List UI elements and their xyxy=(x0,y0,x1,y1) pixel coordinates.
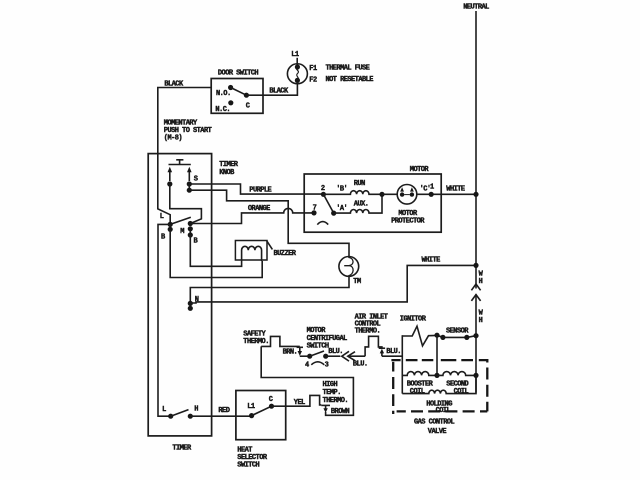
svg-text:BOOSTER: BOOSTER xyxy=(407,380,434,388)
switch centrifugal contacts xyxy=(307,351,328,365)
contact N.O. dot xyxy=(228,85,233,90)
thermostat TM circle xyxy=(339,257,359,277)
svg-text:(M-8): (M-8) xyxy=(164,134,183,142)
svg-text:RED: RED xyxy=(218,407,229,415)
terminal 2 dot xyxy=(321,192,326,197)
svg-text:SECOND: SECOND xyxy=(446,380,468,388)
svg-text:KNOB: KNOB xyxy=(219,169,235,177)
wire BLACK from door switch C to thermal fuse xyxy=(246,83,297,95)
wire ORANGE from M to motor 7 with hop xyxy=(190,208,314,223)
thermostat air inlet control bump xyxy=(365,336,382,356)
svg-text:C: C xyxy=(269,396,273,404)
contact L dot xyxy=(168,222,173,227)
svg-text:AUX.: AUX. xyxy=(354,200,369,208)
junction dot booster-second xyxy=(434,373,439,378)
thermostat safety thermo bump xyxy=(261,336,300,346)
wire L1 stub xyxy=(296,58,298,65)
wire sensor junction to coils xyxy=(436,335,438,375)
switch blade heat selector xyxy=(252,406,272,415)
junction dot second-neutral xyxy=(473,373,478,378)
svg-text:IGNITOR: IGNITOR xyxy=(400,316,427,324)
contact S lower dot xyxy=(187,184,192,193)
buzzer flag xyxy=(267,241,273,250)
svg-text:TIMER: TIMER xyxy=(219,161,239,169)
switch heat selector box xyxy=(236,391,286,440)
protector left contact xyxy=(400,187,404,197)
wire RED to heat selector xyxy=(190,415,251,417)
svg-text:BLU.: BLU. xyxy=(353,360,368,368)
label BOOSTER COIL xyxy=(407,380,434,396)
label MOTOR PROTECTOR xyxy=(391,210,425,226)
buzzer wire from B pair xyxy=(190,235,241,266)
wire S lower to TM xyxy=(189,190,349,256)
contact N.C. dot xyxy=(228,100,233,105)
coil AUX winding xyxy=(334,194,382,213)
svg-text:YEL: YEL xyxy=(294,399,305,407)
fuse element squiggle xyxy=(296,67,298,81)
junction dot motor white neutral xyxy=(473,192,478,197)
wire N to WHITE to neutral xyxy=(190,265,473,303)
svg-text:THERMO.: THERMO. xyxy=(355,328,381,336)
contact push-start left dot xyxy=(167,181,172,186)
svg-text:7: 7 xyxy=(313,204,317,212)
svg-text:COIL: COIL xyxy=(410,388,425,396)
svg-text:HIGH: HIGH xyxy=(323,381,338,389)
contact M dot xyxy=(188,221,193,226)
label SECOND COIL xyxy=(446,380,468,396)
label AIR INLET CONTROL THERMO. xyxy=(355,314,388,336)
svg-text:TM: TM xyxy=(353,278,361,286)
arc motor switch wipe xyxy=(317,222,328,225)
contact B pair below M xyxy=(188,226,193,237)
buzzer coil xyxy=(242,246,262,261)
svg-text:NOT RESETABLE: NOT RESETABLE xyxy=(326,76,374,84)
svg-text:PURPLE: PURPLE xyxy=(249,187,271,195)
contact C heat dot xyxy=(269,404,274,409)
svg-text:GAS CONTROL: GAS CONTROL xyxy=(414,418,455,426)
switch blade motor start xyxy=(323,194,336,215)
svg-text:TEMP.: TEMP. xyxy=(323,389,341,397)
svg-text:COIL: COIL xyxy=(454,388,469,396)
connector W-H lower chevron xyxy=(471,295,480,301)
svg-text:'B': 'B' xyxy=(336,186,347,194)
connector brn terminal xyxy=(297,347,308,356)
svg-text:THERMO.: THERMO. xyxy=(243,338,269,346)
svg-text:4: 4 xyxy=(305,362,309,370)
svg-text:BLACK: BLACK xyxy=(269,88,289,96)
wire neutral vertical lower xyxy=(475,294,477,392)
label TIMER KNOB xyxy=(219,161,239,177)
arrow left actuator arrow xyxy=(168,167,173,181)
connector blu chevrons xyxy=(342,351,355,361)
label GAS CONTROL VALVE xyxy=(414,418,455,436)
svg-text:H: H xyxy=(479,317,483,325)
svg-text:THERMO.: THERMO. xyxy=(323,397,349,405)
wire neutral vertical upper xyxy=(475,11,477,289)
contact C dot xyxy=(244,93,249,98)
wire run to C to neutral WHITE xyxy=(382,193,474,195)
protector right contact xyxy=(410,187,414,197)
coil second xyxy=(437,372,476,376)
svg-text:BLACK: BLACK xyxy=(164,81,184,89)
svg-text:L1: L1 xyxy=(247,403,255,411)
label HIGH TEMP. THERMO. xyxy=(323,381,349,405)
svg-text:BLU.: BLU. xyxy=(386,348,401,356)
coil RUN winding xyxy=(323,191,382,195)
svg-text:SWITCH: SWITCH xyxy=(237,461,259,469)
junction dot run-aux xyxy=(379,192,384,197)
terminal F2 dot xyxy=(295,78,300,83)
switch door switch box xyxy=(211,79,263,114)
ignitor zigzag element xyxy=(402,326,437,346)
terminal F1 dot xyxy=(295,64,300,69)
buzzer box xyxy=(235,241,267,261)
wire L to bottom timer contact xyxy=(158,224,171,416)
svg-text:'A': 'A' xyxy=(336,205,347,213)
svg-text:L: L xyxy=(162,406,166,414)
fuse thermal fuse circle xyxy=(287,64,307,84)
svg-text:N.C.: N.C. xyxy=(215,106,230,114)
svg-text:VALVE: VALVE xyxy=(428,428,447,436)
arrow right actuator arrow xyxy=(187,167,192,181)
wire YEL to high temp thermostat xyxy=(272,395,322,406)
wire TM bottom to N contact xyxy=(190,276,349,301)
thermostat TM element xyxy=(344,257,353,276)
wire BROWN to safety thermostat xyxy=(261,346,353,415)
switch blade timer L xyxy=(170,217,191,224)
protector motor protector circle xyxy=(397,185,417,205)
buzzer wire right lead to B below L xyxy=(170,229,262,277)
svg-text:MOTOR: MOTOR xyxy=(410,166,430,174)
svg-text:BRN.: BRN. xyxy=(283,349,298,357)
svg-text:WHITE: WHITE xyxy=(446,186,465,194)
wire BLU to ignitor xyxy=(382,355,402,357)
label HEAT SELECTOR SWITCH xyxy=(237,446,268,469)
svg-text:'C': 'C' xyxy=(420,186,431,194)
terminal 7 dot xyxy=(311,210,316,215)
wire BLU from contact 3 xyxy=(326,355,341,357)
connector brown terminal xyxy=(321,405,330,412)
svg-text:L1: L1 xyxy=(291,51,299,59)
svg-text:SENSOR: SENSOR xyxy=(446,327,469,335)
svg-text:M: M xyxy=(180,228,184,236)
motor MOTOR box xyxy=(304,174,441,232)
wire BLU to air inlet thermostat xyxy=(348,355,365,357)
label THERMAL FUSE NOT RESETABLE xyxy=(326,64,374,84)
svg-text:B: B xyxy=(161,233,166,241)
contact L1 dot xyxy=(249,413,254,418)
coil holding xyxy=(402,375,476,393)
contact N pair xyxy=(188,301,193,311)
svg-text:PROTECTOR: PROTECTOR xyxy=(391,217,425,225)
svg-text:F1: F1 xyxy=(309,65,317,73)
label MOMENTARY PUSH TO START (M-8) xyxy=(164,119,212,142)
sensor element xyxy=(434,333,478,340)
label HOLDING COIL xyxy=(426,400,452,415)
svg-text:COIL: COIL xyxy=(436,407,451,415)
svg-text:F2: F2 xyxy=(309,77,317,85)
switch blade door switch xyxy=(231,88,247,96)
terminal C dot xyxy=(429,192,434,197)
connector blu up arrow xyxy=(379,348,385,356)
svg-text:RUN: RUN xyxy=(354,180,365,188)
svg-text:L: L xyxy=(160,213,164,221)
connector W-H arrow upper chevron xyxy=(471,284,480,290)
svg-text:C: C xyxy=(246,102,250,110)
svg-text:1: 1 xyxy=(430,184,434,192)
wire BLACK from start circuit to door switch xyxy=(158,88,211,223)
label MOTOR CENTRIFUGAL SWITCH xyxy=(307,327,348,350)
svg-text:NEUTRAL: NEUTRAL xyxy=(463,4,489,12)
svg-text:TIMER: TIMER xyxy=(172,444,192,452)
svg-text:SWITCH: SWITCH xyxy=(307,343,329,351)
svg-text:B: B xyxy=(194,237,199,245)
protector bridge xyxy=(404,194,410,196)
svg-text:THERMAL FUSE: THERMAL FUSE xyxy=(326,64,370,72)
svg-text:WHITE: WHITE xyxy=(422,256,441,264)
coil booster xyxy=(402,372,437,376)
wire PURPLE from S to motor 2 xyxy=(189,184,321,194)
junction dot white neutral xyxy=(473,263,478,268)
svg-text:ORANGE: ORANGE xyxy=(248,205,270,213)
svg-text:BUZZER: BUZZER xyxy=(274,250,297,258)
valve gas control dashed box xyxy=(391,360,487,414)
label SAFETY THERMO. xyxy=(243,331,269,347)
svg-text:3: 3 xyxy=(325,362,329,370)
contact B dot below L xyxy=(168,224,173,232)
svg-text:H: H xyxy=(194,406,198,414)
svg-text:H: H xyxy=(479,278,483,286)
timer TIMER box xyxy=(148,154,211,436)
svg-text:N.O.: N.O. xyxy=(216,90,231,98)
switch timer heat contact xyxy=(168,410,193,419)
ignitor vertical feed xyxy=(401,335,403,393)
button push-to-start actuator T xyxy=(169,160,191,165)
svg-text:S: S xyxy=(194,175,198,183)
svg-text:BLU.: BLU. xyxy=(328,348,343,356)
svg-text:2: 2 xyxy=(321,185,325,193)
contact S upper dot xyxy=(187,181,192,186)
svg-text:DOOR SWITCH: DOOR SWITCH xyxy=(218,70,259,78)
wire push-left to M blade xyxy=(170,184,202,224)
